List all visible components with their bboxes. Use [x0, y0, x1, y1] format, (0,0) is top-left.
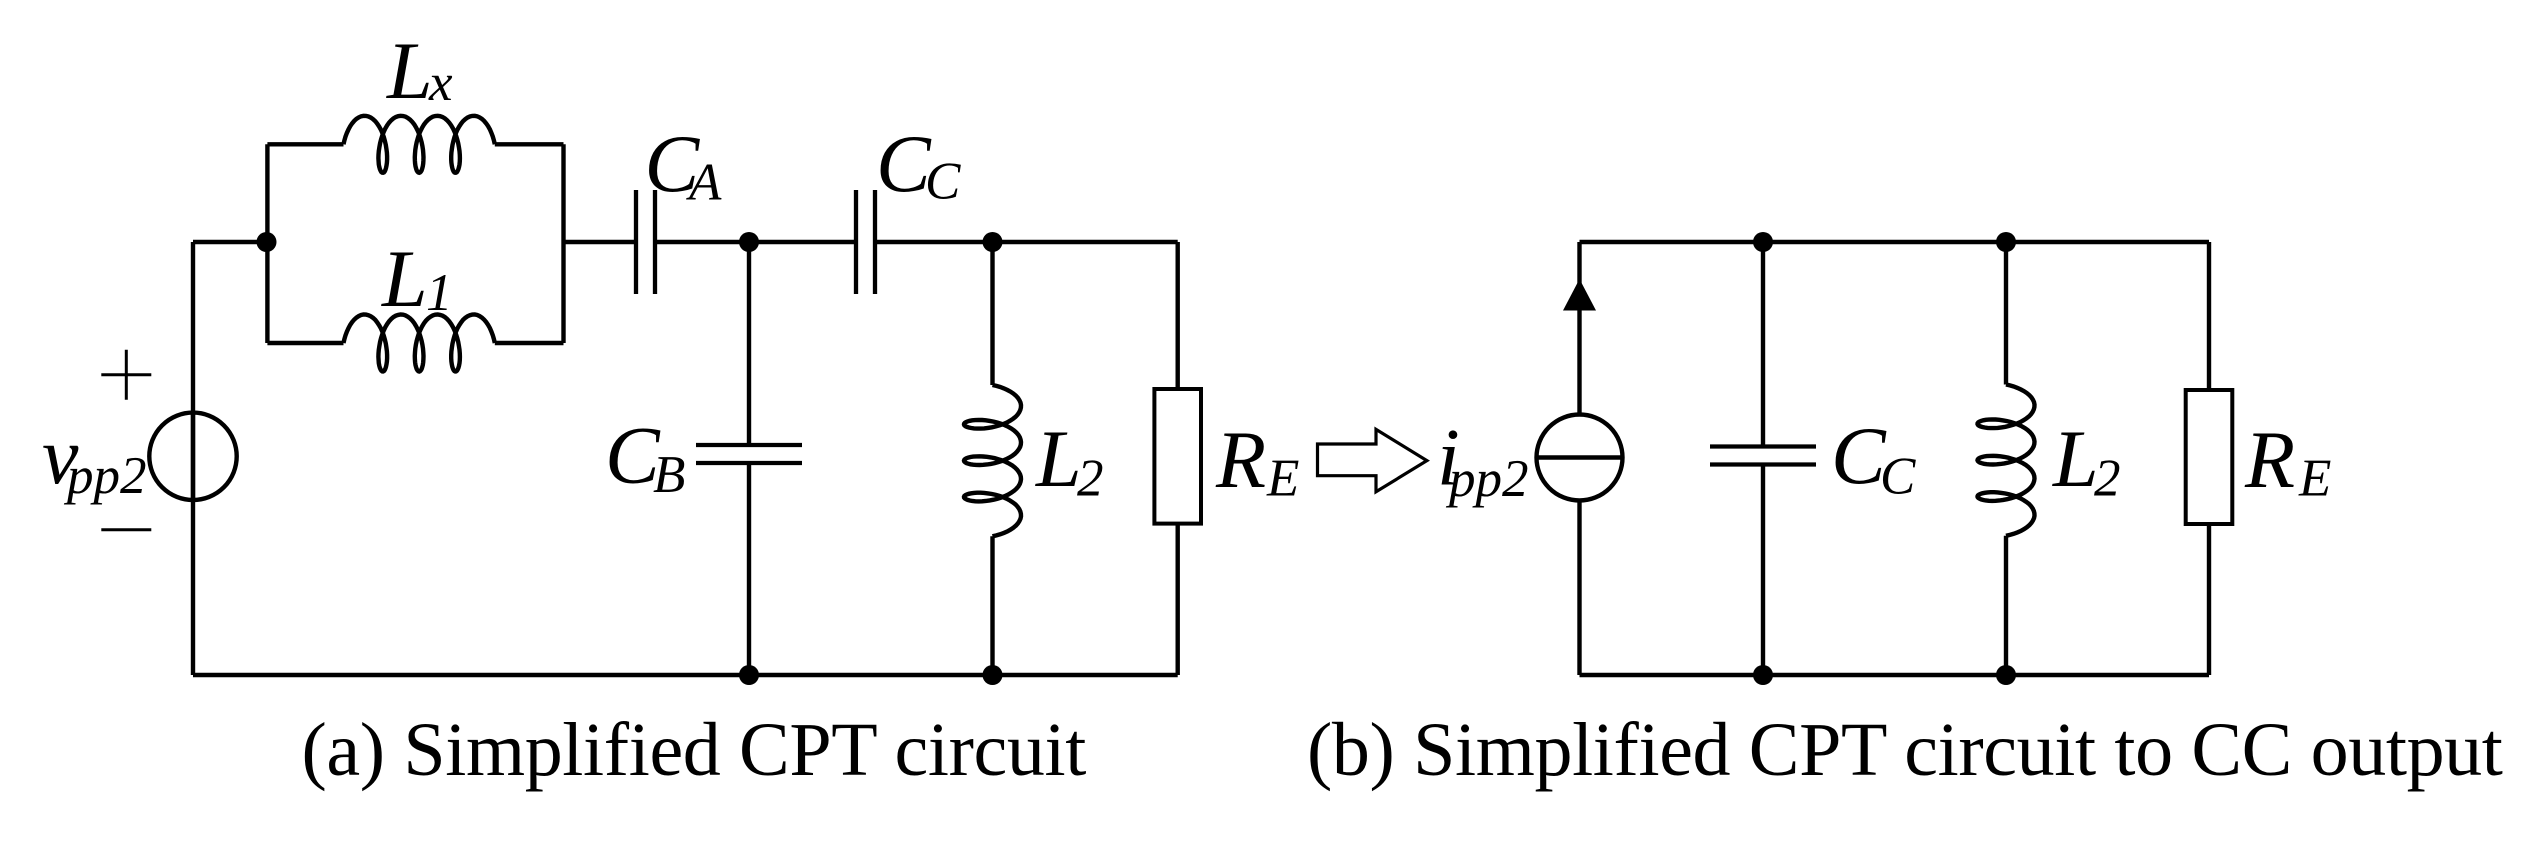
capacitor CB plates: [696, 445, 802, 463]
wire feed to parallel node: [193, 240, 267, 244]
svg-text:L: L: [386, 25, 433, 116]
wire left vertical (source branch): [191, 242, 195, 675]
svg-text:x: x: [428, 54, 453, 112]
svg-text:L: L: [1035, 413, 1082, 504]
svg-text:2: 2: [1077, 450, 1104, 508]
wire RE bottom lead: [1175, 524, 1179, 675]
node E (CB bottom): [739, 665, 759, 685]
wire CC (b) bottom lead: [1761, 465, 1765, 676]
svg-text:A: A: [686, 154, 722, 212]
wire CB down to bottom rail: [747, 463, 751, 675]
wire RE (b) top lead: [2207, 242, 2211, 390]
wire node C to RE top corner: [993, 240, 1178, 244]
resistor RE (b): [2186, 390, 2233, 524]
svg-text:L: L: [381, 233, 428, 324]
svg-text:R: R: [2244, 414, 2295, 505]
inductor L1: [344, 315, 495, 372]
wire (b) bottom rail: [1580, 673, 2210, 677]
wire L1 left lead: [267, 341, 343, 345]
wire RE top lead: [1175, 242, 1179, 389]
node G (CC top): [1753, 232, 1773, 252]
wire (b) left vertical bottom: [1577, 501, 1581, 676]
svg-text:1: 1: [426, 264, 453, 322]
wire CC to node C: [877, 240, 993, 244]
svg-text:2: 2: [2094, 450, 2121, 508]
node C: [983, 232, 1003, 252]
plus sign: [101, 350, 151, 400]
capacitor CA plates: [636, 190, 655, 294]
wire Lx right lead: [495, 142, 564, 146]
node J (L2 bottom): [1996, 665, 2016, 685]
wire L2 down to bottom rail: [990, 536, 994, 675]
wire (b) top rail: [1580, 240, 2210, 244]
inductor L2 (b): [1978, 385, 2035, 536]
inductor L2 (a): [964, 385, 1021, 536]
svg-text:(b) Simplified CPT circuit to: (b) Simplified CPT circuit to CC output: [1307, 708, 2503, 792]
voltage source V1 circle: [149, 413, 236, 500]
svg-text:(a) Simplified CPT circuit: (a) Simplified CPT circuit: [302, 708, 1087, 792]
wire node C down to L2: [990, 242, 994, 385]
svg-text:C: C: [876, 118, 932, 209]
node A (parallel block input): [257, 232, 277, 252]
wire CA to node B: [657, 240, 749, 244]
wire bottom rail (a): [193, 673, 1178, 677]
wire parallel block right vertical: [561, 144, 565, 343]
svg-text:pp2: pp2: [63, 447, 147, 505]
wire through source: [191, 413, 195, 500]
resistor RE (a): [1154, 389, 1201, 524]
inductor Lx: [344, 116, 495, 173]
wire L2 (b) top lead: [2004, 242, 2008, 385]
wire parallel block left vertical: [265, 144, 269, 343]
svg-text:B: B: [653, 446, 685, 504]
wire L1 right lead: [495, 341, 564, 345]
node B: [739, 232, 759, 252]
svg-text:L: L: [2052, 413, 2099, 504]
svg-text:pp2: pp2: [1445, 450, 1529, 508]
svg-text:C: C: [1831, 410, 1887, 501]
capacitor CC plates (a): [856, 190, 875, 294]
current source I1 circle: [1537, 415, 1623, 501]
node F (L2 bottom): [983, 665, 1003, 685]
wire Lx left lead: [267, 142, 343, 146]
wire node B down to CB: [747, 242, 751, 445]
capacitor CC plates (b): [1710, 447, 1816, 465]
wire node B to CC: [749, 240, 854, 244]
block arrow (implies): [1318, 429, 1427, 491]
node H (CC bottom): [1753, 665, 1773, 685]
svg-text:E: E: [1266, 450, 1299, 508]
node I (L2 top): [1996, 232, 2016, 252]
wire CC (b) top lead: [1761, 242, 1765, 447]
wire block to CA: [564, 240, 635, 244]
minus sign: [101, 528, 151, 531]
current source bar: [1537, 455, 1623, 459]
current arrow head: [1563, 279, 1596, 311]
svg-text:R: R: [1215, 414, 1266, 505]
wire RE (b) bottom lead: [2207, 524, 2211, 675]
wire (b) left vertical top: [1577, 242, 1581, 415]
svg-text:C: C: [1880, 448, 1916, 506]
wire L2 (b) bottom lead: [2004, 536, 2008, 675]
svg-text:C: C: [925, 153, 961, 211]
svg-text:E: E: [2298, 450, 2331, 508]
